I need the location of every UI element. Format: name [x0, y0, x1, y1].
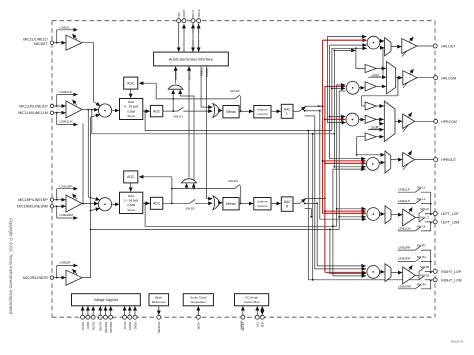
- pin HPRCOM: [434, 119, 457, 124]
- wire bus B5 from PGA-R bypass: [336, 85, 366, 226]
- wire red DAC-R analog bus vertical: [324, 86, 326, 272]
- Audio Serial Bus Interface block U-ASI: [154, 52, 229, 66]
- svg-text:DRVDD1: DRVDD1: [104, 321, 108, 333]
- wire VCM buffer 5 input riser: [356, 137, 365, 156]
- wire sum HPL to mux: [380, 40, 384, 42]
- svg-text:Steps: Steps: [127, 208, 135, 212]
- wire DIN(R): [205, 66, 212, 199]
- svg-text:DVDD: DVDD: [133, 322, 137, 330]
- svg-text:IOVDD: IOVDD: [128, 322, 132, 331]
- svg-text:LINE1RM: LINE1RM: [60, 213, 74, 217]
- svg-text:LINE1LM: LINE1LM: [60, 120, 73, 124]
- I2C Serial Control Bus block: [235, 294, 269, 306]
- Volume Control R block: [254, 198, 271, 210]
- PGA L 0-59.5dB: [120, 99, 143, 120]
- wire sum to line-out mux: [380, 271, 385, 273]
- op-amp VCM buffer 5: [365, 133, 384, 141]
- svg-text:SW-L4: SW-L4: [417, 225, 426, 229]
- Volume Control L block: [254, 106, 271, 118]
- wire effects R to volume R: [239, 203, 253, 205]
- wire LINE2R amp output rising to mixers: [82, 117, 92, 278]
- wire MIC1L amp output: [82, 109, 98, 111]
- pin AVSS1: [81, 306, 85, 330]
- svg-text:Control: Control: [257, 204, 267, 208]
- mux HPLCOM source select: [387, 62, 403, 94]
- pin MCLK: [196, 306, 200, 329]
- op-amp HPLOUT driver: [402, 37, 417, 57]
- svg-text:Effects: Effects: [226, 110, 236, 114]
- wire input bypass vertical: [82, 123, 84, 203]
- svg-text:SW-D2: SW-D2: [230, 89, 240, 93]
- svg-text:PGA: PGA: [128, 194, 134, 198]
- wire bus B1: [327, 37, 366, 123]
- wire red DAC-L analog bus vertical: [319, 40, 324, 213]
- pin AVSS2: [91, 306, 95, 330]
- svg-text:LINE1LP: LINE1LP: [60, 90, 72, 94]
- svg-text:AVDD: AVDD: [86, 322, 90, 329]
- svg-text:MICDET: MICDET: [34, 42, 49, 46]
- op-amp VCM buffer 4: [365, 115, 384, 123]
- svg-text:LINE2LP: LINE2LP: [398, 187, 410, 191]
- mux HPLOUT source select: [385, 38, 402, 56]
- svg-text:WCLK: WCLK: [197, 9, 201, 17]
- wire input mix bypass left: [92, 110, 335, 134]
- svg-text:B0157-01: B0157-01: [451, 339, 464, 343]
- svg-text:LINE1RM: LINE1RM: [398, 284, 412, 288]
- svg-text:LINE2RP: LINE2RP: [398, 245, 411, 249]
- svg-text:AGC: AGC: [127, 81, 135, 85]
- svg-text:0.5dB: 0.5dB: [127, 203, 135, 207]
- pin RIGHT_LOP: [431, 269, 462, 274]
- pin MIC1LP/LINE1LP: [19, 104, 65, 108]
- chip boundary dashed border: [52, 21, 435, 318]
- summing amp RIGHT line-out mixer: [367, 266, 380, 279]
- svg-text:VCM: VCM: [372, 73, 379, 77]
- svg-text:SW-R1: SW-R1: [417, 255, 427, 259]
- svg-text:LEFT_LOP: LEFT_LOP: [441, 212, 459, 216]
- wire red tap to RIGHT_LO sum: [325, 271, 366, 273]
- svg-text:BCLK: BCLK: [191, 10, 195, 18]
- svg-text:SW-D1: SW-D1: [173, 115, 183, 119]
- summing amp HPLCOM mixer: [346, 81, 364, 94]
- switch SW-D4 ADC-R direct to DAC-R: [172, 179, 242, 204]
- op-amp MIC1R differential buffer: [66, 194, 82, 212]
- switch SW-R5 amp positive out: [419, 265, 432, 273]
- mux DAC R input selector: [213, 196, 223, 210]
- pin DVDD: [133, 306, 137, 329]
- DAC R block: [271, 197, 293, 211]
- svg-text:Effects: Effects: [226, 202, 236, 206]
- svg-text:Control Bus: Control Bus: [244, 300, 260, 304]
- svg-text:MCLK: MCLK: [197, 321, 201, 329]
- switch SW-D2 ADC-L direct to DAC-L: [173, 89, 241, 112]
- op-amp VCM buffer 1: [365, 64, 386, 72]
- wire MIC1L to right mixer: [87, 110, 89, 197]
- svg-text:VCM: VCM: [371, 125, 378, 129]
- AGC R: [124, 171, 138, 192]
- node LINE1LM / switch SW-L4: [398, 222, 431, 231]
- summing amp LEFT line-out mixer: [367, 208, 380, 221]
- op-amp LEFT line driver: [403, 207, 416, 226]
- mux DOUT(R) selector: [181, 67, 196, 189]
- wire bus B9 DAC-R to RIGHT_LO mixer: [317, 203, 366, 266]
- pin DRVDD1: [104, 306, 108, 332]
- svg-text:SW-L3: SW-L3: [420, 216, 429, 220]
- pin MIC2L/LINE2L/MICDET: [23, 38, 65, 46]
- svg-text:Voltage Supplies: Voltage Supplies: [94, 298, 119, 302]
- op-amp MIC1L differential buffer: [66, 100, 82, 118]
- node VCM rail: [368, 73, 386, 77]
- pin LEFT_LOM: [431, 220, 460, 225]
- svg-text:RESET: RESET: [241, 321, 245, 330]
- wire to HPLOUT pin: [417, 45, 433, 47]
- node LINE2L off-page: [57, 25, 78, 42]
- mux LEFT source select: [385, 206, 402, 224]
- svg-text:SW-R2: SW-R2: [417, 244, 427, 248]
- Audio Clock Generation block: [183, 294, 213, 306]
- summing node right ADC mixer: [88, 197, 111, 211]
- wire PGA L to ADC L: [143, 110, 150, 112]
- figure number B0157-01: [451, 339, 464, 343]
- wire ADC R riser: [171, 188, 173, 204]
- svg-text:MIC2L/LINE2L/: MIC2L/LINE2L/: [23, 38, 48, 42]
- svg-text:HPROUT: HPROUT: [441, 158, 457, 162]
- wire line driver output branches: [415, 271, 419, 279]
- wire line driver output branches: [415, 214, 419, 222]
- svg-text:DIN: DIN: [177, 13, 181, 18]
- node LINE1RP off-page: [57, 184, 78, 199]
- node LINE1RM / switch SW-R4: [398, 280, 431, 289]
- node LINE2R off-page: [57, 261, 78, 278]
- wire ADC-R to DOUT mux: [180, 94, 195, 189]
- wire red tap to HPLCOM sum: [325, 85, 346, 87]
- wire sum1 branch down to VCM buffer: [355, 47, 365, 68]
- pin RESET: [241, 306, 245, 330]
- node LINE2RP / switch SW-R2: [398, 244, 431, 262]
- svg-text:DVSS: DVSS: [123, 322, 127, 330]
- svg-text:SW-L5: SW-L5: [420, 207, 429, 211]
- svg-text:DOUT(L): DOUT(L): [174, 68, 178, 79]
- wire bus B2: [329, 45, 367, 159]
- wire bus B4 from input bypass left: [334, 50, 366, 168]
- pin MIC2R/LINE2R: [23, 276, 66, 280]
- op-amp HPRCOM driver: [403, 112, 415, 131]
- svg-text:LINE2L: LINE2L: [60, 25, 71, 29]
- node LINE1LP off-page: [57, 90, 78, 106]
- svg-text:SW-R4: SW-R4: [417, 282, 427, 286]
- summing node left ADC mixer: [91, 102, 112, 118]
- wire PGA-L bypass drop to line-out: [307, 130, 419, 280]
- pin DVSS: [123, 306, 127, 329]
- wire bus B7 DAC-L to line out mixers: [320, 111, 366, 219]
- svg-text:HPLCOM: HPLCOM: [441, 76, 456, 80]
- svg-text:LEFT_LOM: LEFT_LOM: [441, 220, 459, 224]
- wire buffer4 branch to mux3: [379, 119, 384, 124]
- svg-text:RIGHT_LOP: RIGHT_LOP: [441, 270, 462, 274]
- Effects L block: [223, 106, 239, 118]
- op-amp RIGHT line driver: [403, 265, 416, 284]
- pin RIGHT_LOM: [431, 278, 462, 283]
- wire sum HPROUT to mux: [379, 162, 384, 164]
- svg-text:Generation: Generation: [191, 300, 206, 304]
- svg-text:MIC1LM/LINE1LM: MIC1LM/LINE1LM: [18, 111, 48, 115]
- svg-text:LINE2R: LINE2R: [60, 261, 72, 265]
- wire VCM branch to HPROUT mux: [357, 154, 385, 156]
- pin MICBIAS: [157, 306, 161, 333]
- pin MIC1LM/LINE1LM: [18, 111, 65, 115]
- switch SW-R3 amp negative out: [419, 273, 432, 281]
- Effects R block: [223, 198, 239, 210]
- svg-text:HPRCOM: HPRCOM: [441, 120, 457, 124]
- svg-text:SW-R5: SW-R5: [420, 265, 430, 269]
- mux HPRCOM source select: [384, 101, 402, 142]
- svg-text:SDA: SDA: [261, 321, 265, 327]
- svg-text:ADC: ADC: [153, 202, 161, 206]
- copyright notice: [9, 218, 14, 315]
- wire to HPRCOM pin: [415, 120, 434, 122]
- svg-text:MIC1LP/LINE1LP: MIC1LP/LINE1LP: [19, 104, 48, 108]
- pin DIN: [177, 13, 181, 52]
- node LINE1RM off-page: [57, 206, 78, 218]
- pin DRVSS: [98, 306, 102, 331]
- switch DAC L output router: [293, 105, 321, 116]
- svg-text:MIC2R/LINE2R: MIC2R/LINE2R: [23, 276, 48, 280]
- svg-text:Copyright © 2016, Texas Instru: Copyright © 2016, Texas Instruments Inco…: [9, 218, 14, 315]
- svg-text:MIC1RM/LINE1RM: MIC1RM/LINE1RM: [17, 205, 48, 209]
- wire VCM to HPL mux second input: [382, 48, 384, 78]
- svg-text:AGC: AGC: [127, 175, 135, 179]
- pin SDA: [260, 306, 264, 327]
- wire input mix bypass right: [91, 229, 340, 231]
- svg-text:0→59.5dB: 0→59.5dB: [124, 105, 138, 109]
- mux DOUT(L) selector: [168, 67, 183, 95]
- svg-text:Steps: Steps: [127, 114, 135, 118]
- mux DAC L input selector: [213, 104, 223, 118]
- svg-text:ADC: ADC: [153, 109, 161, 113]
- svg-text:SW-L2: SW-L2: [417, 186, 426, 190]
- pin IOVDD: [128, 306, 132, 330]
- wire PGA-L output bypass to output mixers: [145, 111, 332, 131]
- wire red tap to HPRCOM sum: [325, 118, 345, 120]
- pin HPROUT: [434, 158, 457, 163]
- op-amp VCM buffer 3: [365, 102, 384, 110]
- wire mux2 output feedback to buffer 3: [362, 77, 399, 106]
- svg-text:DRVSS: DRVSS: [99, 322, 103, 331]
- PGA R 0-59.5dB: [120, 192, 143, 213]
- svg-text:Audio Serial Bus Interface: Audio Serial Bus Interface: [169, 57, 213, 61]
- wire ADC L output / switch SW-D1: [163, 107, 213, 119]
- wire sum to line-out mux: [380, 213, 385, 215]
- switch DAC R output router: [293, 198, 326, 209]
- wire AGC R feedback from ADC output: [139, 177, 172, 189]
- svg-text:MICBIAS: MICBIAS: [157, 322, 161, 333]
- mux RIGHT source select: [385, 264, 402, 282]
- op-amp LINE2R input buffer: [66, 269, 82, 285]
- op-amp HPROUT driver: [403, 151, 415, 170]
- svg-text:AVSS1: AVSS1: [81, 321, 85, 330]
- node LINE2LP / switch SW-L2: [398, 186, 431, 204]
- op-amp VCM buffer 2: [365, 82, 386, 91]
- svg-text:DOUT: DOUT: [182, 9, 186, 17]
- wire bus B13: [332, 169, 366, 276]
- pin MIC1RM/LINE1RM: [17, 205, 66, 209]
- AGC L: [124, 77, 138, 98]
- pin DRVDD2: [109, 306, 113, 332]
- svg-text:SW-D4: SW-D4: [228, 179, 238, 183]
- pin HPLCOM: [434, 76, 457, 81]
- wire PGA R to ADC R: [143, 202, 150, 204]
- wire LINE2L amp output to mixers: [82, 43, 94, 102]
- pin LEFT_LOP: [431, 212, 460, 217]
- mux HPROUT source select: [385, 151, 402, 173]
- wire PGA-R output bypass to output mixers: [145, 203, 337, 227]
- ADC R: [150, 197, 162, 209]
- svg-text:AVSS2: AVSS2: [92, 321, 96, 330]
- svg-text:HPLOUT: HPLOUT: [441, 45, 456, 49]
- wire bus B3 from PGA-L bypass: [331, 48, 367, 130]
- wire DIN(L): [200, 66, 213, 107]
- op-amp LINE2L input buffer: [66, 34, 82, 50]
- svg-text:DIN(L): DIN(L): [200, 68, 204, 76]
- wire red tap to HPL sum: [323, 39, 367, 41]
- svg-text:LINE1RP: LINE1RP: [60, 184, 73, 188]
- wire ADC R output / switch SW-D3: [163, 199, 213, 210]
- wire sum to PGA R: [112, 203, 119, 205]
- node LINE1RP / switch SW-R1: [398, 255, 432, 272]
- wire input bypass drop to line-out: [312, 133, 314, 281]
- ADC L: [150, 105, 162, 116]
- svg-text:DRVDD2: DRVDD2: [109, 321, 113, 333]
- wire bus B12: [330, 229, 366, 273]
- wire AGC L feedback from ADC output: [139, 83, 173, 99]
- svg-text:LINE1RP: LINE1RP: [398, 257, 411, 261]
- svg-text:LINE1LM: LINE1LM: [398, 226, 411, 230]
- pin AVDD: [86, 306, 90, 329]
- svg-text:Reference: Reference: [152, 300, 166, 304]
- Voltage Supplies block: [72, 294, 141, 306]
- wire red taps to LEFT_LO sum: [323, 211, 366, 213]
- pin DOUT: [182, 9, 186, 52]
- svg-text:DIN(R): DIN(R): [205, 68, 209, 77]
- svg-text:LINE1LP: LINE1LP: [398, 199, 410, 203]
- svg-text:RIGHT_LOM: RIGHT_LOM: [441, 278, 462, 282]
- wire bus B8: [315, 116, 366, 269]
- wire red taps to HPROUT sum: [322, 160, 366, 163]
- svg-text:SCL: SCL: [256, 321, 260, 327]
- svg-text:0.5dB: 0.5dB: [127, 109, 135, 113]
- op-amp HPLCOM driver: [403, 69, 417, 88]
- svg-text:0→59.5dB: 0→59.5dB: [124, 199, 138, 203]
- wire effects L to volume L: [239, 110, 253, 112]
- switch SW-L3 amp negative out: [419, 216, 432, 224]
- node LINE1LM off-page: [57, 113, 78, 125]
- svg-text:SW-R3: SW-R3: [420, 273, 430, 277]
- svg-text:SW-D3: SW-D3: [185, 207, 195, 211]
- pin MIC1RP/LINE1RP: [18, 198, 65, 202]
- svg-text:SW-L1: SW-L1: [417, 197, 426, 201]
- pin SCL: [255, 306, 259, 327]
- node VCM rail right: [368, 125, 384, 130]
- summing amp HPROUT mixer: [366, 158, 379, 171]
- summing amp HPL mixer: [367, 36, 380, 49]
- switch SW-L5 amp positive out: [419, 207, 432, 215]
- svg-text:MIC1RP/LINE1RP: MIC1RP/LINE1RP: [18, 198, 48, 202]
- wire to HPLCOM pin: [417, 77, 434, 79]
- svg-text:PGA: PGA: [128, 100, 134, 104]
- DAC L block: [271, 104, 293, 118]
- wire MIC1R amp output: [82, 203, 98, 205]
- svg-text:Control: Control: [257, 112, 267, 116]
- wire ADC-L to DOUT mux: [172, 94, 174, 111]
- summing amp HPRCOM mixer: [346, 113, 365, 126]
- pin HPLOUT: [433, 44, 456, 49]
- wire to HPROUT pin: [415, 159, 434, 161]
- svg-text:L: L: [286, 112, 288, 116]
- svg-text:DOUT(R): DOUT(R): [188, 68, 192, 80]
- wire bus B6 from input bypass right: [338, 91, 366, 229]
- wire bus B10: [310, 209, 312, 218]
- node LINE1LP / switch SW-L1: [398, 197, 432, 214]
- pin WCLK: [197, 9, 201, 52]
- pin BCLK: [191, 10, 195, 52]
- Bias/Reference block: [149, 294, 169, 306]
- wire sum to PGA L: [112, 110, 119, 112]
